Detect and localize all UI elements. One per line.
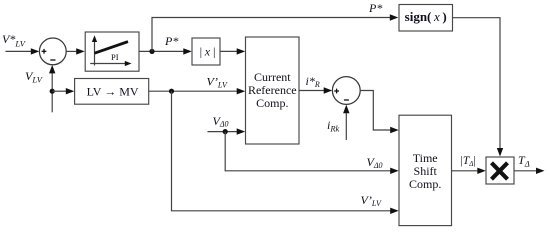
junction dot V_d0	[223, 129, 228, 134]
wire S2 to Time Shift Comp	[360, 91, 399, 134]
svg-text:Time: Time	[413, 151, 438, 165]
wire PI to abs block	[139, 48, 192, 54]
node V'_LV label	[207, 75, 228, 90]
svg-text:Reference: Reference	[248, 83, 297, 97]
node V_LV label	[25, 69, 44, 85]
node P* top label	[368, 1, 382, 15]
junction dot V_LV	[50, 89, 55, 94]
node P* label	[164, 34, 178, 48]
wire V'_LV to Time Shift Comp	[172, 91, 399, 214]
block sign(x)	[399, 5, 453, 32]
node TD_abs label	[461, 155, 476, 168]
junction dot V'_LV	[169, 89, 174, 94]
wire V_LV input	[49, 65, 55, 112]
node i*R label	[306, 74, 320, 89]
node V_d0 label	[213, 114, 229, 129]
block Time Shift Comp	[399, 115, 452, 225]
node V*_LV label	[2, 32, 27, 49]
node i_Rk label	[327, 118, 340, 134]
wire T_D output	[514, 168, 545, 174]
junction dot P*	[149, 49, 154, 54]
svg-text:Current: Current	[254, 70, 291, 84]
wire abs to Current Reference Comp	[220, 48, 245, 54]
block abs |x|	[192, 38, 220, 65]
svg-text:sign( x ): sign( x )	[405, 9, 447, 24]
svg-text:LV → MV: LV → MV	[87, 84, 139, 98]
block Current Reference Comp	[246, 37, 300, 144]
multiplier M1	[486, 157, 514, 184]
block PI	[85, 32, 139, 71]
wire i_Rk input	[343, 105, 349, 140]
wire V_d0 to Time Shift Comp	[225, 132, 399, 174]
svg-text:Comp.: Comp.	[409, 177, 441, 191]
node V_d0 label right	[367, 155, 383, 170]
svg-text:PI: PI	[111, 52, 119, 62]
wire S1 to PI	[66, 48, 85, 54]
svg-text:P*: P*	[164, 34, 178, 48]
wire i*R to S2	[299, 87, 332, 93]
svg-text:Shift: Shift	[414, 164, 438, 178]
wire V_LV to LV-MV block	[52, 88, 74, 94]
block LV to MV	[75, 79, 149, 105]
svg-text:| x |: | x |	[199, 45, 216, 59]
wire V*_LV input	[6, 48, 40, 54]
svg-text:|TΔ|: |TΔ|	[461, 155, 476, 168]
wire P* to sign block	[152, 14, 398, 51]
svg-text:Comp.: Comp.	[256, 96, 288, 110]
wire Time Shift Comp to multiplier	[452, 168, 486, 174]
summing junction S1	[39, 38, 66, 65]
node T_D label	[518, 153, 530, 169]
svg-text:P*: P*	[368, 1, 382, 15]
node V'_LV label right	[361, 193, 382, 208]
wire LV-MV to Current Reference Comp	[149, 88, 246, 94]
wire V_d0 input	[208, 128, 246, 134]
wire sign to multiplier	[453, 18, 504, 157]
summing junction S2	[332, 77, 360, 105]
